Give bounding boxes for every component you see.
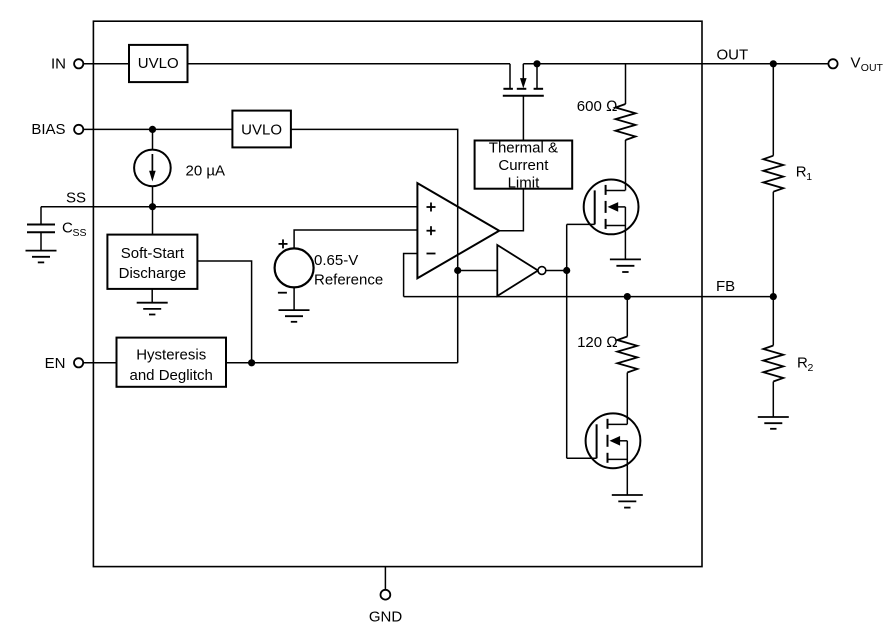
node pass FET source dot	[533, 60, 540, 67]
svg-text:Limit: Limit	[508, 175, 541, 192]
resistor 600 ohm	[616, 64, 636, 191]
ground under CSS	[26, 251, 57, 263]
svg-text:EN: EN	[45, 355, 66, 372]
current source I1 20uA	[134, 129, 171, 206]
svg-text:FB: FB	[716, 278, 735, 295]
node FB to 120ohm dot	[624, 293, 631, 300]
node inverter output dot	[563, 267, 570, 274]
wire EN to Hysteresis box	[84, 362, 117, 364]
ground under Soft-Start Discharge	[137, 289, 168, 315]
svg-text:UVLO: UVLO	[138, 55, 179, 72]
svg-text:UVLO: UVLO	[241, 121, 282, 138]
wire gate bus vertical	[566, 224, 568, 458]
wire amp inverting input elbow	[404, 254, 418, 297]
svg-text:Discharge: Discharge	[119, 265, 187, 282]
node bus to inverter dot	[454, 267, 461, 274]
capacitor CSS	[27, 207, 55, 251]
svg-text:OUT: OUT	[861, 62, 884, 74]
resistor R1	[763, 64, 783, 297]
pin VOUT	[828, 55, 883, 74]
svg-text:Hysteresis: Hysteresis	[136, 347, 206, 364]
wire to NMOS Q3 gate	[567, 457, 597, 459]
node EN junction dot	[248, 359, 255, 366]
transistor Q2 NMOS upper	[584, 180, 639, 260]
resistor 120 ohm	[617, 297, 637, 425]
wire SS rail	[41, 206, 417, 208]
label R2	[797, 355, 814, 375]
svg-text:Current: Current	[498, 157, 549, 174]
wire amp output to Thermal box	[499, 189, 523, 231]
block Hysteresis and Deglitch	[117, 338, 227, 387]
pin EN	[45, 355, 84, 372]
block Soft-Start Discharge	[107, 235, 197, 289]
block UVLO U1	[129, 45, 188, 82]
wire Soft-Start output to EN node	[197, 261, 251, 363]
node SS junction dot	[149, 203, 156, 210]
svg-text:Soft-Start: Soft-Start	[121, 245, 185, 262]
wire reference to ground	[293, 287, 295, 310]
block UVLO U2	[232, 111, 291, 148]
ground under Q2	[610, 259, 641, 272]
voltage reference VREF 0.65V	[275, 239, 314, 292]
wire inverter output	[546, 270, 567, 272]
node FB to R2 dot	[770, 293, 777, 300]
wire OUT rail	[523, 63, 828, 65]
inverter U3	[497, 245, 546, 296]
wire to NMOS Q2 gate	[567, 223, 595, 225]
wire Hysteresis output to bus	[226, 362, 458, 364]
wire Thermal box to pass FET gate	[522, 96, 524, 141]
svg-text:120 Ω: 120 Ω	[577, 334, 618, 351]
svg-text:R: R	[797, 355, 808, 372]
svg-text:1: 1	[806, 171, 812, 183]
ground under R2	[758, 417, 789, 429]
ground under Q3	[612, 495, 643, 508]
block Thermal & Current Limit	[475, 139, 573, 191]
svg-text:OUT: OUT	[717, 46, 749, 63]
IC boundary box	[93, 21, 702, 566]
ground under reference	[279, 310, 310, 322]
svg-text:SS: SS	[66, 190, 86, 207]
svg-text:and Deglitch: and Deglitch	[130, 367, 213, 384]
wire UVLO2 output to bus	[291, 129, 458, 362]
label CSS	[62, 220, 87, 239]
label 0.65-V Reference	[314, 252, 383, 289]
svg-text:Reference: Reference	[314, 271, 383, 288]
transistor Q3 NMOS lower	[586, 413, 641, 495]
wire UVLO to pass FET drain	[188, 63, 511, 65]
svg-text:V: V	[851, 55, 861, 72]
node OUT to R1 dot	[770, 60, 777, 67]
wire BIAS to UVLO2	[84, 128, 233, 130]
pin BIAS	[31, 121, 83, 138]
resistor R2	[763, 297, 783, 417]
wire bus to inverter input	[458, 270, 498, 272]
wire FB rail	[404, 296, 774, 298]
svg-text:GND: GND	[369, 608, 403, 625]
pin IN	[51, 56, 83, 73]
svg-text:600 Ω: 600 Ω	[577, 98, 618, 115]
op-amp error amplifier	[417, 183, 499, 278]
transistor Q1 PMOS pass FET	[503, 64, 544, 96]
svg-text:20 µA: 20 µA	[186, 163, 226, 180]
label R1	[796, 164, 813, 184]
svg-text:2: 2	[808, 362, 814, 374]
svg-text:BIAS: BIAS	[31, 121, 65, 138]
pin GND	[369, 567, 403, 626]
wire reference to amp input	[294, 230, 417, 248]
svg-text:R: R	[796, 164, 807, 181]
svg-text:C: C	[62, 220, 73, 237]
svg-text:0.65-V: 0.65-V	[314, 252, 358, 269]
wire current source to Soft-Start box	[152, 207, 154, 235]
svg-text:IN: IN	[51, 56, 66, 73]
node BIAS junction dot	[149, 126, 156, 133]
svg-text:SS: SS	[73, 227, 87, 239]
wire IN to UVLO	[84, 63, 129, 65]
svg-text:Thermal &: Thermal &	[489, 139, 558, 156]
